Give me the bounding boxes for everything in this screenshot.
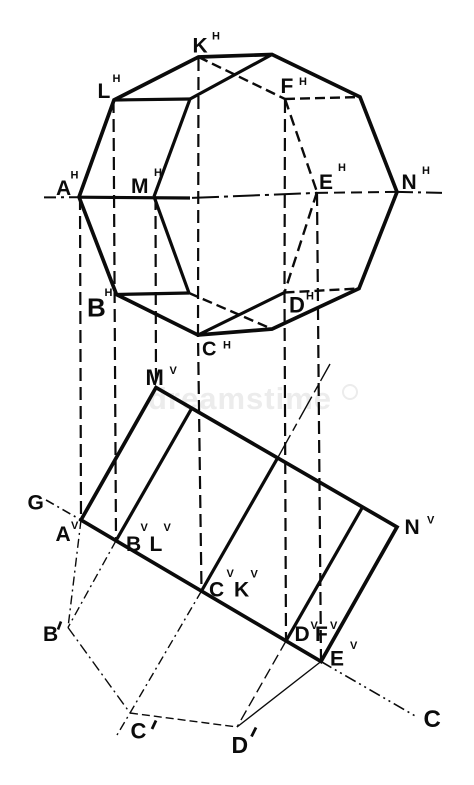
svg-text:E: E bbox=[319, 171, 333, 194]
svg-text:H: H bbox=[223, 340, 231, 352]
hidden edge K-F bbox=[199, 57, 286, 99]
svg-text:C: C bbox=[131, 719, 147, 744]
svg-text:K: K bbox=[234, 579, 249, 602]
division line CV-KV bbox=[202, 458, 278, 591]
svg-text:B: B bbox=[43, 623, 58, 646]
svg-text:H: H bbox=[422, 165, 430, 177]
axis center line left of A bbox=[44, 196, 79, 198]
svg-text:N: N bbox=[405, 516, 420, 539]
svg-text:V: V bbox=[71, 520, 79, 532]
svg-text:V: V bbox=[164, 522, 172, 534]
svg-text:N: N bbox=[402, 171, 417, 194]
projection line E down bbox=[317, 193, 321, 661]
division line BV-LV bbox=[116, 408, 192, 541]
edge C-D bbox=[198, 293, 285, 336]
svg-text:L: L bbox=[150, 533, 163, 556]
svg-text:H: H bbox=[154, 167, 162, 179]
edge P1-M bbox=[154, 99, 190, 197]
projection line A down bbox=[80, 197, 81, 520]
projection line M down bbox=[154, 197, 157, 387]
true shape edge AV-B' bbox=[68, 520, 81, 628]
C line extension bbox=[321, 662, 417, 718]
svg-text:A: A bbox=[56, 523, 71, 546]
svg-text:V: V bbox=[170, 365, 178, 377]
true shape edge D'-EV bbox=[237, 662, 321, 728]
projection line L-B down bbox=[114, 100, 117, 540]
edge B-P2 bbox=[117, 293, 190, 295]
svg-text:V: V bbox=[251, 569, 259, 581]
svg-text:C: C bbox=[209, 579, 224, 602]
svg-text:D: D bbox=[295, 623, 310, 646]
projection line K-C down bbox=[198, 58, 202, 591]
division line DV-FV bbox=[286, 507, 363, 641]
svg-text:F: F bbox=[281, 75, 294, 98]
svg-text:L: L bbox=[98, 80, 111, 103]
edge A-M bbox=[79, 196, 190, 200]
svg-text:G: G bbox=[28, 492, 44, 515]
svg-text:H: H bbox=[71, 170, 79, 182]
svg-text:H: H bbox=[338, 162, 346, 174]
svg-text:M: M bbox=[131, 175, 149, 198]
hidden edge P2-W bbox=[189, 293, 272, 329]
prime of D bbox=[252, 728, 257, 737]
projector DV-D' bbox=[237, 641, 286, 727]
svg-text:A: A bbox=[56, 177, 71, 200]
hidden edge F-Y bbox=[285, 97, 360, 99]
svg-text:D: D bbox=[232, 732, 249, 758]
svg-text:B: B bbox=[87, 293, 106, 323]
edge M-P2 bbox=[154, 197, 189, 293]
svg-text:F: F bbox=[315, 623, 328, 646]
projector BV-B' bbox=[68, 541, 116, 628]
true shape edge B'-C' bbox=[68, 628, 130, 714]
svg-text:V: V bbox=[141, 522, 149, 534]
svg-text:H: H bbox=[212, 31, 220, 43]
axis center line M to E bbox=[192, 193, 317, 198]
axis center line right of N bbox=[397, 192, 447, 193]
svg-text:H: H bbox=[299, 76, 307, 88]
svg-text:C: C bbox=[424, 706, 441, 733]
edge L-P1 bbox=[114, 99, 190, 100]
svg-text:D: D bbox=[289, 293, 305, 318]
hidden edge D-Z bbox=[285, 289, 360, 293]
decagon outline A-L-K-X-Y-N-Z-W-C-B bbox=[79, 55, 397, 336]
svg-text:V: V bbox=[350, 640, 358, 652]
svg-text:H: H bbox=[105, 287, 113, 299]
svg-text:V: V bbox=[330, 620, 338, 632]
svg-text:V: V bbox=[427, 515, 435, 527]
thin extension above CV division bbox=[278, 364, 330, 458]
svg-text:K: K bbox=[193, 35, 208, 58]
svg-text:B: B bbox=[126, 533, 141, 556]
svg-text:M: M bbox=[146, 365, 164, 390]
G line extension bbox=[46, 500, 81, 520]
hidden edge F-E bbox=[285, 99, 317, 192]
hidden edge E-D bbox=[285, 192, 318, 293]
true shape edge C'-D' bbox=[130, 713, 237, 727]
axis center line E to N bbox=[317, 192, 397, 193]
watermark registered mark bbox=[343, 385, 357, 399]
prime of B bbox=[58, 622, 61, 630]
svg-text:E: E bbox=[330, 648, 344, 671]
projection line F-D down bbox=[285, 100, 287, 641]
svg-text:H: H bbox=[306, 291, 314, 303]
prime of C bbox=[152, 721, 156, 730]
projector CV-C' bbox=[117, 591, 202, 735]
rectangle AV-MV-NV-EV bbox=[81, 388, 397, 662]
svg-text:C: C bbox=[202, 339, 216, 361]
svg-text:H: H bbox=[113, 73, 121, 85]
edge X-P1 bbox=[190, 55, 272, 100]
